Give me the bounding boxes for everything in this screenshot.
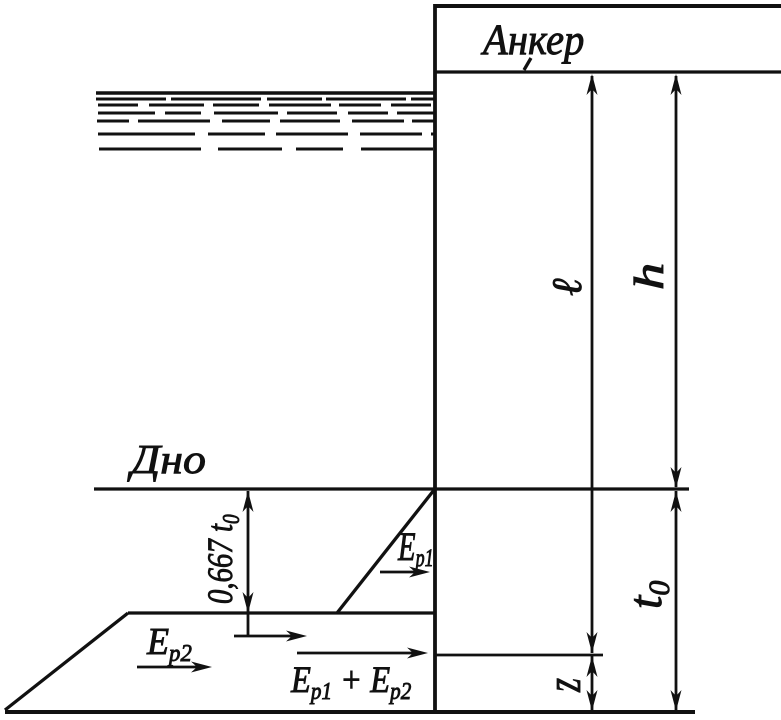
svg-text:t0: t0: [619, 581, 676, 609]
bottom (dno) line: [94, 487, 689, 490]
svg-text:Ep1: Ep1: [397, 524, 433, 571]
dimension z: [591, 656, 594, 711]
svg-text:Анкер: Анкер: [480, 17, 584, 64]
force arrow Ep2: [137, 666, 202, 669]
svg-text:Ep2: Ep2: [146, 621, 192, 667]
water surface hatching line 3: [98, 104, 434, 107]
z top extension line: [435, 654, 603, 657]
passive pressure slope line: [5, 613, 128, 710]
svg-text:0,667 t0: 0,667 t0: [201, 514, 244, 604]
water surface hatching line 1: [96, 91, 434, 95]
dimension line 0,667 t0: [247, 491, 250, 636]
anchor plate top line: [434, 4, 781, 8]
anchor plate bottom line: [434, 70, 781, 73]
water surface hatching line 4: [98, 112, 434, 115]
water surface hatching line 2: [96, 98, 434, 101]
dimension line t0: [675, 491, 678, 711]
water surface hatching line 7: [99, 148, 434, 151]
ground bottom line: [5, 710, 695, 714]
water surface hatching line 5: [97, 120, 434, 123]
svg-text:Ep1 + Ep2: Ep1 + Ep2: [290, 659, 411, 704]
svg-text:h: h: [626, 263, 673, 290]
svg-text:ℓ: ℓ: [545, 278, 591, 296]
sheet pile wall: [433, 4, 437, 712]
small force arrow at 0.667t0: [234, 635, 296, 638]
dimension line h: [675, 76, 678, 487]
tick mark under label: [524, 58, 531, 70]
resultant force arrow Ep1+Ep2: [297, 652, 418, 655]
svg-text:Дно: Дно: [127, 437, 206, 482]
passive pressure top line: [128, 611, 435, 614]
force arrow Ep1: [380, 571, 420, 574]
water surface hatching line 6: [98, 133, 434, 136]
svg-text:z: z: [536, 678, 591, 693]
dimension line l: [591, 76, 594, 653]
pressure triangle hypotenuse: [337, 490, 434, 613]
